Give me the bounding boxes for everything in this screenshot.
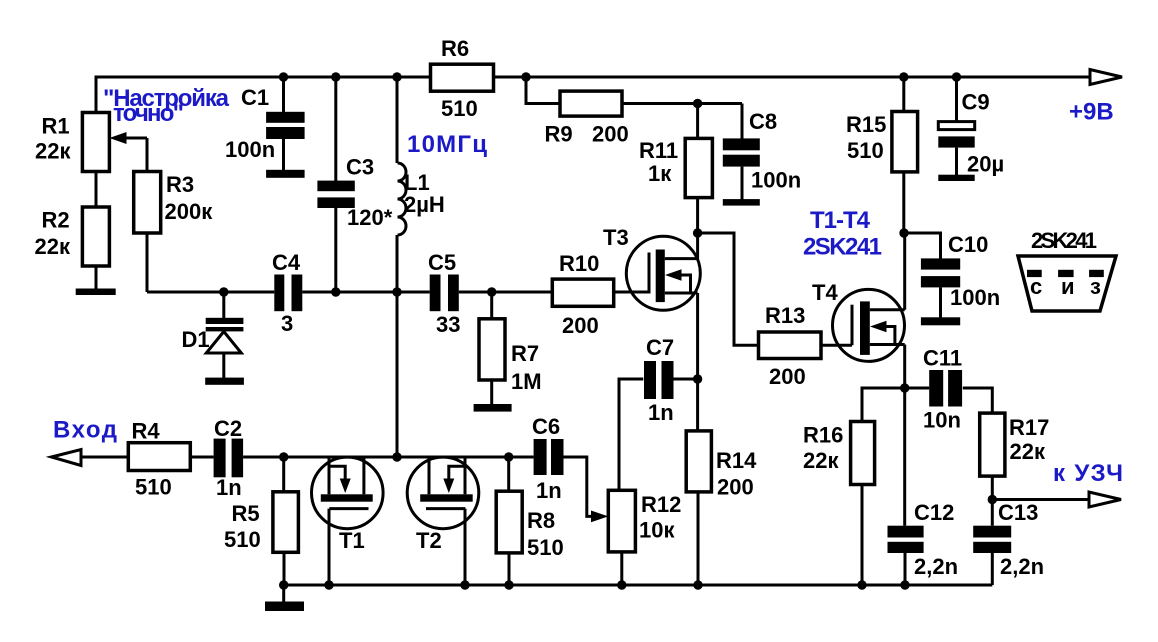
node D1 junction: [219, 287, 228, 296]
node L1 bottom junction: [392, 287, 401, 296]
varicap diode D1: [206, 292, 244, 378]
svg-text:510: 510: [527, 535, 564, 560]
svg-text:2SK241: 2SK241: [803, 234, 882, 261]
capacitor C12: [888, 526, 924, 585]
resistor R17: [980, 413, 1005, 526]
resistor R10: [552, 279, 613, 306]
svg-text:R7: R7: [511, 341, 539, 366]
wire R3 to bus: [146, 233, 149, 292]
svg-text:510: 510: [224, 527, 261, 552]
wire R13 to T4 gate: [821, 344, 852, 347]
wire T3 source down: [696, 293, 699, 431]
svg-text:22к: 22к: [1010, 439, 1046, 464]
svg-text:22к: 22к: [35, 139, 71, 164]
node C1 top junction: [279, 72, 288, 81]
svg-text:R14: R14: [716, 448, 757, 473]
svg-text:1n: 1n: [216, 475, 242, 500]
capacitor C5: [430, 275, 459, 312]
node C3 top junction: [331, 72, 340, 81]
svg-text:T1: T1: [339, 528, 365, 553]
node T4 source junction: [900, 383, 909, 392]
resistor R13: [759, 332, 822, 359]
svg-text:C3: C3: [346, 155, 374, 180]
svg-text:C2: C2: [214, 416, 242, 441]
svg-text:с: с: [1030, 274, 1042, 299]
svg-text:200: 200: [562, 313, 599, 338]
resistor R8: [496, 457, 522, 585]
input arrow Вход: [51, 450, 81, 466]
svg-text:R1: R1: [42, 114, 70, 139]
svg-text:200: 200: [769, 364, 806, 389]
resistor R6: [431, 64, 494, 91]
svg-text:C11: C11: [923, 346, 962, 371]
svg-text:510: 510: [847, 138, 884, 163]
capacitor C2: [214, 439, 284, 478]
svg-text:22к: 22к: [35, 234, 71, 259]
node L1 gate junction: [392, 452, 401, 461]
resistor R1 (potentiometer): [82, 113, 109, 172]
svg-text:200к: 200к: [165, 199, 214, 224]
node rail R12: [617, 580, 626, 589]
wire C11 bus y388: [862, 388, 992, 422]
svg-text:C10: C10: [948, 232, 988, 257]
transistor T2: [407, 457, 479, 585]
svg-text:10МГц: 10МГц: [407, 131, 487, 158]
svg-text:22к: 22к: [803, 448, 839, 473]
svg-text:R12: R12: [641, 492, 681, 517]
wire R1 wiper arm: [109, 132, 147, 172]
node R9 branch junction: [521, 72, 530, 81]
resistor R9: [560, 91, 622, 116]
node R15 top junction: [899, 72, 908, 81]
pin i (source): [1058, 270, 1074, 299]
resistor R11: [685, 104, 712, 260]
resistor R2: [82, 207, 109, 266]
node R8 C6 junction: [504, 452, 513, 461]
svg-text:з: з: [1090, 274, 1101, 299]
capacitor C4: [274, 275, 302, 312]
capacitor C6: [534, 439, 609, 522]
capacitor C9 electrolytic: [938, 77, 974, 175]
svg-text:R4: R4: [132, 419, 161, 444]
svg-text:10к: 10к: [639, 518, 675, 543]
svg-text:10n: 10n: [923, 408, 961, 433]
inductor L1: [397, 77, 406, 457]
pin z (gate): [1089, 270, 1104, 299]
svg-text:R11: R11: [639, 138, 678, 163]
svg-text:100n: 100n: [751, 168, 801, 193]
resistor R7: [479, 292, 505, 405]
ground under C9: [938, 175, 974, 181]
svg-text:T4: T4: [812, 280, 838, 305]
node R15 bottom junction: [899, 228, 908, 237]
svg-text:R9: R9: [545, 122, 573, 147]
svg-text:D1: D1: [182, 327, 210, 352]
svg-text:R3: R3: [166, 172, 194, 197]
svg-text:100n: 100n: [225, 137, 275, 162]
wire ground rail bottom: [284, 584, 993, 587]
capacitor C3: [317, 77, 354, 292]
wire input line y457: [78, 456, 214, 459]
svg-text:33: 33: [436, 312, 460, 337]
svg-text:R6: R6: [441, 36, 469, 61]
node T3 drain junction: [693, 228, 702, 237]
resistor R5: [273, 457, 299, 585]
output arrow к УЗЧ: [1089, 492, 1121, 507]
svg-text:C4: C4: [272, 250, 301, 275]
svg-text:3: 3: [281, 311, 293, 336]
wire R1 to R2: [95, 172, 98, 208]
svg-text:R17: R17: [1009, 415, 1049, 440]
node L1 top junction: [392, 72, 401, 81]
svg-text:2,2n: 2,2n: [1000, 554, 1044, 579]
+9V output arrow: [1090, 70, 1122, 85]
svg-text:2,2n: 2,2n: [914, 554, 958, 579]
wire +9V top rail: [96, 77, 1118, 112]
svg-text:200: 200: [717, 475, 754, 500]
ground under C8: [723, 199, 760, 206]
ground under C1: [266, 170, 305, 178]
capacitor C8: [723, 104, 760, 200]
svg-text:200: 200: [592, 122, 629, 147]
node C2 R5 junction: [279, 452, 288, 461]
node rail R5: [279, 580, 288, 589]
svg-text:T3: T3: [603, 225, 629, 250]
label Настройка точно: [103, 85, 230, 127]
svg-text:точно": точно": [113, 100, 184, 127]
svg-text:+9В: +9В: [1069, 99, 1114, 126]
ground under R7: [474, 404, 512, 412]
svg-text:C12: C12: [914, 500, 954, 525]
node output junction: [988, 495, 997, 504]
svg-text:к УЗЧ: к УЗЧ: [1053, 460, 1123, 487]
svg-text:510: 510: [441, 96, 478, 121]
ground main: [265, 585, 304, 611]
wire R9 branch: [526, 77, 560, 104]
2SK241 package outline: [1018, 256, 1116, 311]
resistor R3: [134, 172, 161, 234]
svg-text:R13: R13: [765, 303, 805, 328]
svg-text:R15: R15: [846, 112, 886, 137]
svg-text:1к: 1к: [648, 161, 672, 186]
svg-text:T2: T2: [416, 528, 442, 553]
svg-text:C6: C6: [532, 414, 560, 439]
svg-text:R2: R2: [42, 208, 70, 233]
capacitor C11: [929, 370, 962, 407]
transistor T3: [626, 236, 700, 310]
svg-text:R10: R10: [559, 251, 599, 276]
ground under R2: [76, 289, 116, 296]
ground under C10: [921, 317, 960, 325]
svg-text:2SK241: 2SK241: [1031, 228, 1097, 253]
svg-text:1M: 1M: [511, 369, 542, 394]
node rail C12: [900, 580, 909, 589]
svg-text:Вход: Вход: [53, 417, 117, 444]
wire R2 to ground: [95, 266, 98, 289]
resistor R12 (potentiometer): [608, 490, 635, 585]
node R7 junction: [487, 287, 496, 296]
svg-text:R16: R16: [803, 423, 843, 448]
wire gate bus T1 T2 y457: [284, 456, 534, 459]
wire oscillator bus y292: [147, 291, 651, 294]
resistor R4: [128, 443, 190, 471]
capacitor C10: [904, 233, 960, 318]
svg-text:и: и: [1061, 274, 1075, 299]
capacitor C1: [266, 77, 305, 170]
svg-text:C7: C7: [646, 335, 674, 360]
node C3 bottom junction: [331, 287, 340, 296]
svg-text:C13: C13: [998, 500, 1038, 525]
node R11 top junction: [693, 99, 702, 108]
svg-text:R5: R5: [232, 501, 260, 526]
svg-text:20µ: 20µ: [967, 152, 1004, 177]
transistor T1: [312, 457, 384, 585]
wire T4 drain up: [903, 233, 906, 310]
svg-text:C1: C1: [241, 85, 269, 110]
svg-text:120*: 120*: [347, 205, 393, 230]
node rail R14: [693, 580, 702, 589]
svg-text:100n: 100n: [950, 285, 1000, 310]
svg-text:C5: C5: [428, 250, 456, 275]
wire R13 bias path: [698, 233, 759, 345]
svg-text:1n: 1n: [648, 400, 674, 425]
resistor R15: [892, 77, 918, 233]
svg-text:C8: C8: [749, 109, 777, 134]
node rail R16: [857, 580, 866, 589]
capacitor C7: [619, 361, 698, 491]
node rail T1 gate: [324, 580, 333, 589]
capacitor C13: [973, 526, 1011, 585]
resistor R16: [851, 422, 875, 586]
svg-text:C9: C9: [962, 90, 990, 115]
node rail R8: [504, 580, 513, 589]
node rail T2 gate: [460, 580, 469, 589]
svg-text:510: 510: [135, 475, 172, 500]
pin c (drain): [1027, 270, 1042, 299]
wire output: [992, 498, 1089, 501]
svg-text:T1-T4: T1-T4: [810, 207, 871, 234]
svg-text:2µН: 2µН: [404, 192, 445, 217]
resistor R14: [686, 431, 711, 585]
transistor T4: [833, 289, 905, 361]
node C7 junction: [693, 374, 702, 383]
svg-text:1n: 1n: [536, 478, 562, 503]
ground under D1: [205, 378, 244, 385]
wire T4 source down: [903, 345, 906, 526]
svg-text:R8: R8: [527, 508, 555, 533]
wire R9 to C8: [622, 102, 742, 105]
node C9 top junction: [952, 72, 961, 81]
